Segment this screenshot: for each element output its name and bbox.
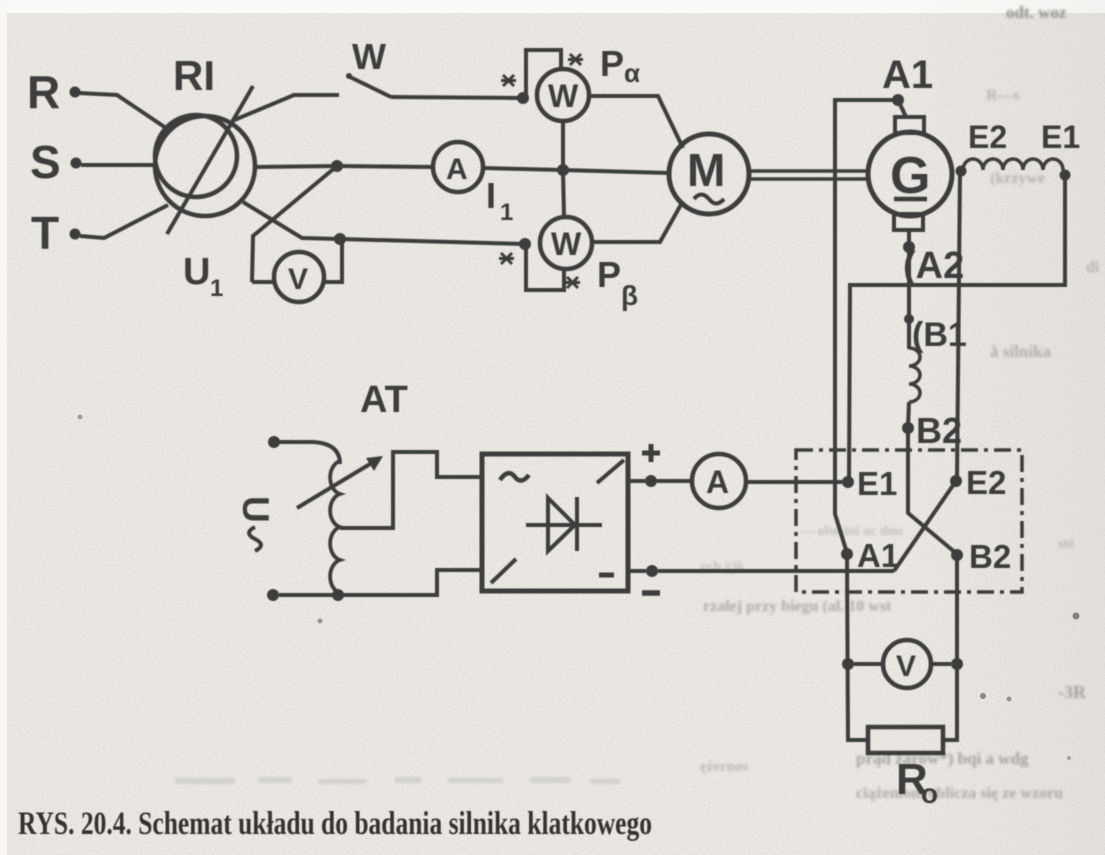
wire lower wattmeter to motor xyxy=(592,201,683,242)
node A1 terminal xyxy=(841,548,853,560)
svg-text:o: o xyxy=(921,778,938,809)
svg-text:α: α xyxy=(624,58,640,88)
left white margin strip xyxy=(0,0,7,855)
AT winding xyxy=(330,461,340,593)
wire regulator middle output xyxy=(255,166,337,167)
asterisk top wattmeter left xyxy=(501,75,516,86)
diode symbol xyxy=(526,523,602,527)
wire top wattmeter to motor xyxy=(589,96,683,148)
voltmeter V load xyxy=(883,640,931,688)
node B2 upper xyxy=(902,422,914,434)
svg-text:B2: B2 xyxy=(969,538,1011,575)
induction regulator RI inner circle xyxy=(155,115,237,197)
node B1 xyxy=(904,314,914,324)
ghost bleed-through text layer xyxy=(700,3,1100,802)
node A1 generator terminal xyxy=(892,94,904,106)
svg-text:W: W xyxy=(352,36,386,77)
wire top wattmeter down to middle junction xyxy=(561,121,565,170)
node S terminal xyxy=(71,158,82,169)
node R terminal xyxy=(70,87,81,98)
wire R to regulator xyxy=(79,93,169,130)
ammeter A dc xyxy=(692,454,746,508)
node AT input bottom xyxy=(267,589,279,601)
node middle junction xyxy=(331,160,343,172)
svg-text:I: I xyxy=(486,175,496,216)
brush block bottom xyxy=(894,214,923,230)
wire B2 terminal down xyxy=(943,555,957,740)
faint smudge row above caption xyxy=(175,777,620,784)
wire V left arm xyxy=(854,662,883,666)
asterisk lower wattmeter right xyxy=(565,277,580,288)
svg-text:M: M xyxy=(687,144,725,196)
node junction bottom phase at wattmeter xyxy=(519,238,531,250)
wire ammeter to center junction xyxy=(483,168,563,170)
svg-text:V: V xyxy=(896,650,916,683)
corner slash bottom left xyxy=(491,559,516,583)
ammeter A1-phase xyxy=(433,142,483,192)
svg-text:RI: RI xyxy=(173,52,215,99)
wattmeter W upper (P alpha) xyxy=(537,69,589,121)
wire V-meter tap diagonal from middle junction xyxy=(252,166,337,282)
minus output xyxy=(628,569,646,573)
minus mark inside box xyxy=(599,573,614,578)
wire S to regulator xyxy=(81,163,153,167)
right side subtle shading xyxy=(900,0,1105,855)
node junction top phase xyxy=(517,92,529,104)
svg-text:AT: AT xyxy=(360,379,408,421)
svg-text:ężernos: ężernos xyxy=(700,759,748,775)
node bottom junction xyxy=(334,233,346,245)
rectifier bridge box xyxy=(482,454,628,591)
wire middle to ammeter xyxy=(337,166,433,167)
tilde AC mark xyxy=(500,473,529,480)
motor M xyxy=(669,134,749,214)
svg-text:A1: A1 xyxy=(882,53,933,97)
wire minus rail xyxy=(658,569,894,573)
wire A1 terminal down xyxy=(847,554,868,740)
plus output xyxy=(628,479,645,483)
node center junction xyxy=(557,164,569,176)
regulator adjustment diagonal xyxy=(167,86,253,234)
svg-text:1: 1 xyxy=(210,275,223,302)
svg-text:U: U xyxy=(235,496,276,523)
wire A2 to B1 xyxy=(907,247,911,319)
brush block top xyxy=(895,117,924,133)
node T terminal xyxy=(70,229,81,240)
asterisk lower wattmeter left xyxy=(499,253,514,264)
wire center junction to motor xyxy=(563,170,669,173)
node A2 xyxy=(903,241,915,253)
induction regulator RI outer circle xyxy=(155,116,255,216)
voltmeter V upper bracket right xyxy=(324,240,342,282)
svg-text:T: T xyxy=(31,207,59,259)
wire V right arm xyxy=(931,662,951,666)
svg-text:A: A xyxy=(446,153,468,186)
wire voltage coil bracket top wattmeter xyxy=(526,50,561,96)
shaft coupling M-G xyxy=(749,169,866,173)
svg-text:W: W xyxy=(548,78,579,114)
svg-text:1: 1 xyxy=(500,199,513,226)
asterisk top wattmeter right xyxy=(568,54,583,65)
generator G xyxy=(868,132,952,216)
node B2 terminal xyxy=(951,549,963,561)
wire B2 down to terminal xyxy=(908,428,957,554)
wire A1 to left column xyxy=(835,100,898,553)
node V left xyxy=(842,658,854,670)
field winding E2-E1 xyxy=(956,166,967,177)
wire bottom phase to lower wattmeter xyxy=(340,239,525,244)
svg-text:rzałej przy biegu (al. 10 wst: rzałej przy biegu (al. 10 wst xyxy=(703,598,892,615)
wire E1 coil to E1 terminal xyxy=(849,175,1065,480)
wire switch to wattmeter junction xyxy=(391,97,523,98)
svg-text:G: G xyxy=(890,147,930,205)
svg-text:B2: B2 xyxy=(916,410,962,451)
switch W blade xyxy=(350,77,391,97)
specks xyxy=(980,693,986,699)
wire AT top terminal to winding xyxy=(279,442,340,464)
svg-text:E1: E1 xyxy=(1041,119,1080,155)
wire center junction down to lower wattmeter xyxy=(563,170,564,217)
svg-text:E2: E2 xyxy=(966,464,1006,501)
wattmeter W lower (P beta) xyxy=(540,217,592,269)
corner slash top right xyxy=(597,460,624,483)
svg-text:S: S xyxy=(30,136,61,188)
svg-text:U: U xyxy=(183,251,210,293)
node E2 terminal xyxy=(950,475,962,487)
wire E2 terminal to minus rail xyxy=(894,481,956,571)
svg-text:β: β xyxy=(621,280,638,311)
node AT winding bottom junction xyxy=(332,589,344,601)
node AT input top xyxy=(268,436,280,448)
label plus xyxy=(642,444,660,462)
svg-text:V: V xyxy=(288,263,308,296)
svg-text:P: P xyxy=(597,254,621,295)
svg-text:R: R xyxy=(27,66,60,118)
label minus xyxy=(642,590,660,596)
wire coil to B2 xyxy=(908,402,909,428)
svg-text:E2: E2 xyxy=(968,119,1007,155)
svg-text:P: P xyxy=(600,43,624,84)
load resistor Ro xyxy=(868,727,943,753)
wire regulator top output xyxy=(232,95,339,121)
commutating winding B1-B2 coil xyxy=(909,348,920,402)
wire voltage coil bracket lower wattmeter xyxy=(526,247,564,290)
top white margin strip xyxy=(0,0,1105,13)
svg-text:(A2: (A2 xyxy=(903,245,964,287)
wire brush bottom to A2 xyxy=(907,230,911,247)
wire B1 to coil xyxy=(907,319,911,349)
node V right xyxy=(951,658,963,670)
svg-text:A: A xyxy=(706,464,729,500)
wire AT bottom rail xyxy=(279,570,482,595)
AT wiper arrow xyxy=(297,461,375,508)
svg-text:RYS. 20.4. Schemat układu do b: RYS. 20.4. Schemat układu do badania sil… xyxy=(18,806,652,842)
wire AT tap to rectifier xyxy=(340,452,482,528)
svg-text:A1: A1 xyxy=(857,537,899,574)
voltmeter V upper bracket left xyxy=(252,280,274,284)
wire ammeter to E1 terminal xyxy=(746,480,842,484)
svg-text:E1: E1 xyxy=(857,465,897,502)
wire E2 coil down to E2 terminal xyxy=(957,173,960,479)
wire plus to ammeter xyxy=(657,479,692,483)
voltmeter V upper xyxy=(274,252,324,302)
wire regulator bottom output xyxy=(243,202,340,239)
node E1 terminal xyxy=(842,476,854,488)
wire T to regulator xyxy=(80,205,168,238)
dash-dot terminal box xyxy=(796,450,1022,592)
svg-text:W: W xyxy=(551,226,582,262)
